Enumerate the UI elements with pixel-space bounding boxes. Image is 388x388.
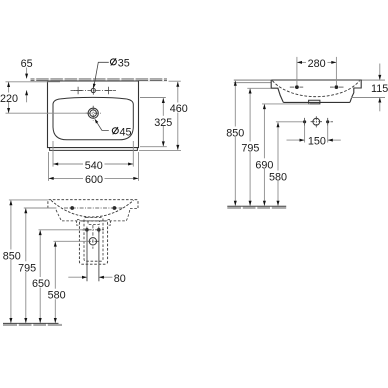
svg-text:600: 600 bbox=[85, 174, 103, 186]
tap holes (lower view) bbox=[70, 206, 74, 210]
svg-text:850: 850 bbox=[226, 128, 244, 140]
wall line (plan view) bbox=[31, 78, 168, 81]
floor line (left stack) bbox=[3, 323, 62, 326]
washbasin front lower edge (plan view) bbox=[50, 148, 138, 151]
svg-text:150: 150 bbox=[308, 136, 326, 148]
svg-text:580: 580 bbox=[48, 290, 66, 302]
tap holes (front view) bbox=[295, 85, 299, 89]
dimension 65 (plan, wall to tap hole) bbox=[21, 58, 33, 102]
extension line 850 (lower view rim top) bbox=[9, 199, 48, 201]
tap hole centerline (plan view) bbox=[71, 90, 117, 92]
svg-text:795: 795 bbox=[18, 262, 36, 274]
mounting box inner (dashed) bbox=[84, 217, 103, 261]
dimension 540 (bowl width) bbox=[53, 141, 133, 172]
hidden bowl parabola (dashed) bbox=[51, 200, 134, 217]
basin bowl (plan view) bbox=[53, 97, 133, 139]
hidden bowl line (front view, dashed) bbox=[272, 81, 359, 97]
dimension 580 (height, left stack) bbox=[48, 242, 66, 323]
dimension 850 (height, right stack) bbox=[226, 81, 244, 206]
mounting screw holes bbox=[85, 228, 89, 232]
svg-text:795: 795 bbox=[241, 143, 259, 155]
drain hole (plan view) bbox=[88, 108, 98, 118]
extension lines for dimension 80 bbox=[86, 232, 88, 282]
svg-text:325: 325 bbox=[154, 117, 172, 129]
floor line (right stack) bbox=[227, 206, 286, 209]
right optional tap hole cross bbox=[107, 87, 109, 94]
dimension 650 (height, left stack) bbox=[32, 230, 50, 323]
dimension 325 (plan, bowl edge to front) bbox=[140, 98, 172, 147]
dimension 280 (tap hole spacing) bbox=[297, 57, 337, 85]
dimension 850 (height, left stack) bbox=[3, 200, 21, 323]
wall line (front view) bbox=[234, 82, 271, 84]
extension line 690 (front view basin bottom) bbox=[262, 103, 310, 105]
extension line 795 (lower view) bbox=[24, 207, 57, 209]
rim top edge extension lines bbox=[234, 79, 271, 81]
dimension 80 (drain pipe spacing) bbox=[68, 273, 126, 285]
svg-text:35: 35 bbox=[118, 58, 130, 70]
mounting box outer (dashed) bbox=[79, 221, 107, 264]
fixing holes (front view) bbox=[303, 120, 306, 123]
hidden basin sides and bottom (dashed) bbox=[56, 210, 130, 221]
svg-text:80: 80 bbox=[114, 273, 126, 285]
extension line 580 (to drain outlet) bbox=[54, 240, 90, 242]
dimension 600 (outer width) bbox=[49, 152, 139, 186]
hidden drain boss (lower view, dashed) bbox=[88, 221, 99, 225]
dimension 580 (height, right stack) bbox=[269, 122, 287, 205]
washbasin outer rectangle (plan view) bbox=[48, 81, 139, 148]
svg-text:650: 650 bbox=[32, 278, 50, 290]
svg-text:45: 45 bbox=[120, 126, 132, 138]
hidden rim outline (dashed) bbox=[48, 200, 138, 209]
svg-text:540: 540 bbox=[85, 160, 103, 172]
svg-text:220: 220 bbox=[0, 93, 18, 105]
dimension 795 (height, right stack) bbox=[241, 89, 259, 206]
svg-text:460: 460 bbox=[170, 103, 188, 115]
svg-text:580: 580 bbox=[269, 172, 287, 184]
drain boss (front view) bbox=[309, 100, 320, 104]
leader line of drain label bbox=[97, 123, 109, 131]
tap hole circle (plan view) bbox=[91, 88, 95, 92]
dimension 220 (plan, wall to drain) bbox=[0, 82, 87, 113]
dimension 690 (height, right stack) bbox=[255, 104, 273, 206]
mounting tabs left and right (dashed) bbox=[77, 219, 80, 225]
extension line to fixing holes (580 top) bbox=[276, 121, 303, 123]
hidden rim underside dashed bbox=[130, 207, 138, 209]
dimension 795 (height, left stack) bbox=[18, 208, 36, 323]
extension line 650 (to screw holes) bbox=[39, 229, 85, 231]
svg-text:690: 690 bbox=[255, 159, 273, 171]
dimension 460 (plan depth) bbox=[139, 81, 188, 150]
svg-text:115: 115 bbox=[371, 83, 388, 95]
leader line of tap hole label bbox=[94, 62, 108, 84]
dimension 150 (fixing hole spacing) bbox=[287, 126, 341, 148]
left optional tap hole cross bbox=[77, 87, 79, 94]
label diameter 35 bbox=[110, 58, 129, 70]
drain outlet circle (lower view) bbox=[89, 238, 96, 245]
basin outline (front view) bbox=[271, 80, 361, 102]
svg-text:280: 280 bbox=[308, 58, 326, 70]
extension line 795 (front view rim underside) bbox=[247, 87, 271, 89]
label diameter 45 bbox=[112, 126, 131, 138]
svg-text:850: 850 bbox=[3, 251, 21, 263]
drain outlet circle (front view) bbox=[313, 118, 320, 125]
dimension 115 (rim height) bbox=[351, 64, 388, 112]
